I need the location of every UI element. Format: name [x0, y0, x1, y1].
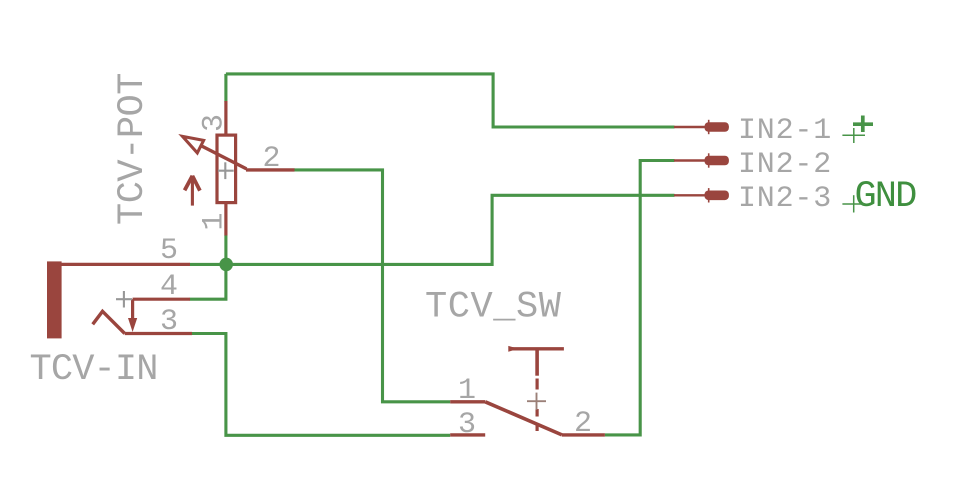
pot pin 3 lead — [224, 101, 227, 135]
switch pin 2 stub — [562, 433, 605, 436]
svg-text:3: 3 — [160, 305, 178, 339]
svg-text:2: 2 — [574, 407, 592, 441]
pot wiper diagonal — [184, 137, 247, 169]
switch pin 3 stub — [450, 433, 485, 436]
switch actuator T bar — [509, 347, 564, 350]
wire jack pin4 to junction — [190, 264, 226, 299]
jack lever zigzag — [93, 311, 125, 333]
pot pin 1 lead — [224, 203, 227, 236]
jack pin 4 switch arrow — [131, 299, 134, 322]
svg-text:1: 1 — [458, 374, 476, 408]
switch blade diagonal — [485, 402, 562, 435]
svg-text:GND: GND — [855, 176, 917, 218]
net label + — [853, 116, 873, 133]
svg-text:IN2-3: IN2-3 — [738, 182, 832, 216]
jack pin 4 line — [133, 298, 190, 301]
jack origin cross — [116, 291, 132, 308]
svg-text:5: 5 — [160, 234, 178, 268]
pin IN2-2 lead — [674, 159, 706, 161]
jack pin 5 line — [60, 263, 190, 266]
pot pin 2 lead — [246, 168, 295, 171]
switch origin cross — [527, 393, 546, 410]
junction dot — [219, 258, 233, 272]
switch actuator stem — [535, 349, 539, 376]
pot origin cross — [218, 162, 234, 179]
wire pot pin3 vertical — [224, 74, 227, 102]
svg-text:2: 2 — [263, 142, 281, 176]
pin IN2-3 pad — [705, 191, 729, 201]
net label + origin cross — [842, 128, 865, 143]
wire net GND: jack pin5 to IN2-3 — [190, 195, 675, 264]
svg-text:3: 3 — [458, 408, 476, 442]
net label GND origin cross — [842, 195, 865, 212]
wire jack pin3 to switch pin3 — [192, 334, 450, 436]
switch pin 1 stub — [450, 400, 485, 403]
wire switch pin2 to IN2-2 — [605, 161, 675, 435]
wire net +: pot pin3 top to IN2-1 — [226, 74, 675, 127]
switch actuator dashed link — [535, 379, 538, 390]
svg-text:IN2-1: IN2-1 — [738, 114, 832, 148]
pot adjust arrow — [185, 176, 200, 206]
svg-text:TCV-POT: TCV-POT — [112, 73, 154, 225]
svg-text:1: 1 — [198, 212, 232, 230]
wire pot pin1 to junction — [224, 235, 227, 266]
pin IN2-1 pad — [705, 122, 729, 132]
svg-text:IN2-2: IN2-2 — [738, 148, 832, 182]
pin IN2-1 lead — [674, 126, 706, 128]
wire pot pin2 to switch pin1 — [294, 170, 450, 402]
svg-text:3: 3 — [198, 114, 232, 132]
pin IN2-2 pad — [705, 156, 729, 166]
switch actuator arrow tip — [508, 346, 518, 352]
svg-text:TCV-IN: TCV-IN — [30, 349, 158, 391]
svg-text:4: 4 — [160, 270, 178, 304]
jack pin 3 line — [125, 332, 192, 335]
potentiometer TCV-POT body — [217, 135, 236, 203]
svg-text:TCV_SW: TCV_SW — [425, 287, 562, 329]
pin IN2-3 lead — [674, 194, 706, 196]
pot wiper arrowhead — [183, 136, 204, 153]
jack TCV-IN sleeve bar — [47, 261, 62, 338]
